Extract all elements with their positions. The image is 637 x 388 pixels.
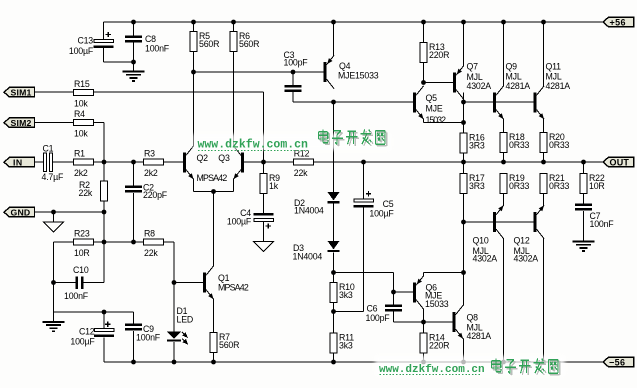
svg-text:Q2: Q2: [197, 153, 209, 163]
wire R16 leads: [463, 123, 465, 134]
transistor Q4 MJE15033: [324, 62, 327, 82]
capacitor C5 100uF: [354, 199, 374, 202]
wire R18 bottom to OUT rail: [503, 153, 505, 163]
svg-text:−56: −56: [609, 357, 625, 367]
wire R2 bottom to R23 node: [103, 212, 105, 242]
wire R6 leads / Q3 collector column: [233, 22, 235, 146]
transistor Q9 MJL4281A: [493, 93, 496, 113]
node junction at 333.5,311.5: [331, 309, 336, 314]
node junction at 543.5,162: [541, 160, 546, 165]
resistor R9 1k: [260, 174, 267, 194]
resistor R3 2k2: [144, 159, 164, 165]
svg-text:www.dzkfw.com.cn: www.dzkfw.com.cn: [198, 138, 309, 151]
wire R22 column: [583, 162, 585, 204]
node junction at 104,212: [102, 210, 107, 215]
node junction at 463.5,222: [461, 220, 466, 225]
wire GND terminal ground stub: [53, 212, 55, 222]
node junction at 133.5,162: [131, 160, 136, 165]
svg-text:100nF: 100nF: [136, 333, 161, 343]
wire R23 C10 left column: [53, 242, 55, 312]
node junction at 543.5,22: [541, 20, 546, 25]
svg-text:100µF: 100µF: [227, 217, 252, 227]
node junction at 293,72: [291, 70, 296, 75]
svg-text:100nF: 100nF: [64, 291, 89, 301]
svg-text:R3: R3: [144, 148, 155, 158]
svg-text:100pF: 100pF: [366, 313, 391, 323]
svg-text:10k: 10k: [74, 98, 88, 108]
wire R5 leads / Q2 collector column: [193, 22, 195, 146]
wire R17 leads and driver column: [463, 162, 465, 305]
wire C3 top lead: [292, 72, 294, 85]
svg-text:MJL: MJL: [546, 71, 562, 81]
wire C10 left lead: [54, 282, 76, 284]
wire GND line: [35, 211, 105, 213]
node junction at 174,282.5: [172, 280, 177, 285]
transistor Q7 MJL4302A: [453, 73, 456, 93]
svg-text:R1: R1: [74, 148, 85, 158]
svg-text:MJE: MJE: [426, 104, 443, 114]
svg-text:www.dzkfw.com.cn: www.dzkfw.com.cn: [379, 364, 485, 376]
resistor R2 22k: [101, 181, 108, 201]
wire R20 bottom to OUT rail: [543, 153, 545, 163]
node junction at 423.5,362: [421, 360, 426, 365]
node junction at 233.5,22: [231, 20, 236, 25]
svg-text:Q8: Q8: [467, 312, 479, 322]
svg-text:C13: C13: [77, 36, 93, 46]
terminal OUT: [603, 157, 634, 167]
diode D2 1N4004: [328, 192, 340, 201]
wire ground stub at x=53.5: [53, 312, 55, 322]
svg-text:4281A: 4281A: [467, 331, 492, 341]
node junction at 193.5,72: [191, 70, 196, 75]
node junction at 503.5,362: [501, 360, 506, 365]
wire Q10 collector to bottom rail: [503, 239, 505, 362]
capacitor C6 100pF: [385, 305, 402, 308]
transistor Q6 MJE15033: [413, 283, 416, 303]
wire Q11 collector to rail: [543, 22, 545, 86]
node junction at 503.5,22: [501, 20, 506, 25]
node junction at 423.5,82.5: [421, 80, 426, 85]
svg-text:MJL: MJL: [506, 71, 522, 81]
svg-text:4302A: 4302A: [467, 81, 492, 91]
svg-text:+56: +56: [610, 17, 626, 27]
wire Q6 base net from diode node: [334, 272, 394, 274]
wire Q1 base: [174, 282, 203, 284]
capacitor C9 100nF: [125, 324, 142, 327]
svg-text:Q5: Q5: [426, 93, 438, 103]
svg-text:C10: C10: [73, 265, 89, 275]
node junction at 53.5,282.5: [51, 280, 56, 285]
watermark bottom chinese text: [493, 360, 560, 375]
svg-text:SIM2: SIM2: [11, 118, 32, 128]
resistor R15 10k: [74, 90, 94, 96]
wire Q12 collector to bottom rail: [543, 239, 545, 362]
svg-text:IN: IN: [13, 157, 23, 167]
svg-text:MPSA42: MPSA42: [197, 173, 228, 183]
wire -56 bottom rail: [104, 361, 603, 363]
transistor Q2 MPSA42: [183, 153, 186, 173]
wire C7 bottom to ground: [583, 211, 585, 241]
resistor R16 3R3: [460, 133, 467, 153]
watermark bottom halo: [375, 356, 565, 375]
wire C6 top lead: [393, 292, 395, 305]
resistor R14 220R: [420, 333, 427, 353]
resistor R4 10k: [74, 120, 94, 126]
node junction at 133.5,62: [131, 60, 136, 65]
ground triangle under C4: [263, 221, 265, 241]
resistor R7 560R: [210, 333, 217, 353]
capacitor C7 100nF: [575, 204, 592, 207]
node junction at 133.5,22: [131, 20, 136, 25]
svg-text:MJE15033: MJE15033: [338, 71, 379, 81]
node junction at 543.5,362: [541, 360, 546, 365]
wire R8 corner down to Q1 base node: [173, 242, 175, 283]
wire Q2 Q3 emitter junction to Q1 collector: [193, 179, 195, 191]
wire R13/Q5 collector node to Q7 base: [424, 82, 454, 84]
svg-text:10k: 10k: [74, 128, 88, 138]
svg-text:220R: 220R: [429, 50, 449, 60]
wire R13 leads: [423, 22, 425, 83]
capacitor C10 100nF: [76, 277, 79, 290]
svg-text:R23: R23: [74, 228, 90, 238]
resistor R5 560R: [190, 32, 197, 52]
wire +56 top rail: [104, 21, 604, 23]
resistor R22 10R: [580, 174, 587, 194]
svg-text:Q10: Q10: [473, 236, 489, 246]
svg-text:15033: 15033: [425, 299, 449, 309]
svg-text:3k3: 3k3: [339, 290, 353, 300]
wire SIM2 to R4 corner: [35, 122, 105, 124]
wire Q6 emitter to driver column: [423, 273, 425, 276]
wire C13 bottom to node: [103, 48, 105, 63]
node junction at 53.5,212: [51, 210, 56, 215]
resistor R23 10R: [74, 239, 94, 245]
wire C3 bottom to Q4 collector node: [292, 92, 294, 102]
svg-text:Q11: Q11: [546, 62, 562, 72]
node junction at 363.5,162: [361, 160, 366, 165]
ground under C8: [123, 71, 145, 73]
wire R9 and C4 column: [263, 162, 265, 213]
resistor R10 3k3: [330, 283, 337, 303]
wire C5 bottom lead to R10 node: [363, 208, 365, 312]
svg-text:0R33: 0R33: [509, 140, 530, 150]
svg-text:R8: R8: [144, 228, 155, 238]
wire ground line y=312: [54, 311, 134, 313]
capacitor C8 100nF: [125, 35, 142, 38]
node junction at 463.5,272.5: [461, 270, 466, 275]
terminal +56: [603, 17, 634, 27]
transistor Q5 MJE15032: [413, 93, 416, 113]
wire Q4 emitter to rail: [333, 22, 335, 55]
svg-text:4302A: 4302A: [473, 253, 498, 263]
svg-text:Q1: Q1: [218, 273, 230, 283]
svg-text:MPSA42: MPSA42: [218, 283, 249, 293]
svg-text:220pF: 220pF: [143, 190, 168, 200]
LED D1: [167, 332, 181, 339]
node junction at 263.5,162: [261, 160, 266, 165]
svg-text:100pF: 100pF: [284, 57, 309, 67]
svg-text:0R33: 0R33: [509, 181, 530, 191]
node junction at 393.5,292: [391, 290, 396, 295]
wire C12 top lead: [103, 312, 105, 329]
svg-text:0R33: 0R33: [549, 181, 570, 191]
svg-text:GND: GND: [11, 207, 31, 217]
svg-text:1N4004: 1N4004: [294, 206, 324, 216]
wire C13 top lead: [103, 22, 105, 40]
node junction at 333.5,22: [331, 20, 336, 25]
svg-text:C12: C12: [79, 326, 95, 336]
wire C5 top lead: [363, 162, 365, 199]
svg-text:3R3: 3R3: [469, 140, 485, 150]
node junction at 213.5,191.5: [211, 189, 216, 194]
terminal SIM2: [4, 118, 35, 128]
capacitor C3 100pF: [285, 85, 302, 88]
svg-text:100µF: 100µF: [70, 337, 95, 347]
svg-text:1k: 1k: [269, 181, 279, 191]
resistor R17 3R3: [460, 174, 467, 194]
node junction at 463.5,22: [461, 20, 466, 25]
svg-text:4281A: 4281A: [546, 81, 571, 91]
watermark middle halo: [193, 134, 391, 150]
svg-text:R4: R4: [74, 109, 85, 119]
wire R23 R8 line y=242: [54, 241, 175, 243]
capacitor C1 4.7uF: [43, 153, 46, 172]
wire R2 column: [103, 162, 105, 212]
svg-text:4302A: 4302A: [514, 253, 539, 263]
resistor R13 220R: [420, 43, 427, 63]
svg-text:10R: 10R: [74, 248, 90, 258]
ground under C7: [573, 241, 595, 243]
svg-text:1N4004: 1N4004: [293, 252, 323, 262]
svg-text:OUT: OUT: [610, 157, 630, 167]
svg-text:22k: 22k: [79, 188, 93, 198]
svg-text:100µF: 100µF: [69, 46, 94, 56]
node junction at 133.5,362: [131, 360, 136, 365]
wire R19 bottom to Q10 emitter: [503, 194, 505, 206]
resistor R20 0R33: [540, 133, 547, 153]
capacitor C13 100uF: [94, 40, 114, 43]
svg-text:10R: 10R: [589, 181, 605, 191]
node junction at 104,312: [102, 310, 107, 315]
svg-text:100µF: 100µF: [369, 208, 394, 218]
wire Q7 collector / Q9 Q11 base net: [463, 93, 465, 123]
svg-text:4.7µF: 4.7µF: [42, 172, 64, 182]
svg-text:15032: 15032: [426, 115, 447, 125]
ground triangle at GND terminal: [44, 222, 64, 232]
transistor Q1 MPSA42: [203, 273, 206, 293]
node junction at 463.5,162: [461, 160, 466, 165]
transistor Q3 MPSA42: [241, 153, 244, 173]
wire Q4 collector node to Q5 base y=102: [334, 101, 414, 103]
svg-text:560R: 560R: [199, 39, 219, 49]
wire Q1 emitter to R7 to rail: [213, 299, 215, 362]
node junction at 104,242: [102, 240, 107, 245]
svg-text:4281A: 4281A: [506, 81, 531, 91]
svg-text:SIM1: SIM1: [11, 87, 32, 97]
node junction at 583.5,162: [581, 160, 586, 165]
wire IN line C1 to Q2 base: [53, 161, 183, 163]
node junction at 104,162: [102, 160, 107, 165]
resistor R18 0R33: [500, 133, 507, 153]
terminal IN: [4, 157, 35, 167]
resistor R19 0R33: [500, 174, 507, 194]
wire C9 leads: [133, 312, 135, 324]
svg-text:Q3: Q3: [218, 153, 230, 163]
svg-text:C8: C8: [145, 34, 156, 44]
wire Q7 emitter to rail: [463, 22, 465, 66]
svg-text:100nF: 100nF: [590, 219, 615, 229]
wire Q5 emitter to R16 node: [423, 119, 425, 122]
svg-text:560R: 560R: [239, 39, 259, 49]
wire R14 leads: [423, 322, 425, 362]
wire Q10 Q12 base net y=222: [464, 221, 534, 223]
capacitor C12 100uF: [94, 329, 114, 332]
svg-text:Q4: Q4: [339, 61, 351, 71]
terminal GND: [4, 207, 35, 217]
wire IN line left: [35, 161, 44, 163]
svg-text:2k2: 2k2: [144, 168, 158, 178]
node junction at 333.5,272.5: [331, 270, 336, 275]
ground at bottom left: [43, 321, 65, 323]
node junction at 503.5,162: [501, 160, 506, 165]
node junction at 174,362: [172, 360, 177, 365]
transistor Q8 MJL4281A: [453, 312, 456, 332]
svg-text:22k: 22k: [144, 248, 158, 258]
wire SIM1 to Q3 base: [35, 91, 264, 93]
resistor R1 2k2: [74, 159, 94, 165]
wire C2 leads: [133, 162, 135, 186]
capacitor C2 220pF: [125, 186, 142, 189]
terminal SIM1: [4, 87, 35, 97]
transistor Q12 MJL4302A: [534, 212, 537, 232]
wire C6 bottom to bias node: [393, 312, 395, 323]
svg-text:3R3: 3R3: [469, 181, 485, 191]
wire Q9 emitter to R18: [503, 119, 505, 132]
node junction at 423.5,322: [421, 320, 426, 325]
node junction at 333.5,362: [331, 360, 336, 365]
svg-text:3k3: 3k3: [339, 340, 353, 350]
transistor Q11 MJL4281A: [534, 93, 537, 113]
wire OUT rail: [244, 161, 603, 163]
wire C10 right lead to R2 column corner: [84, 282, 105, 284]
wire D1 leads: [173, 283, 175, 332]
wire C8 leads: [133, 22, 135, 35]
resistor R6 560R: [230, 32, 237, 52]
svg-text:Q7: Q7: [467, 61, 479, 71]
wire C12 bottom to bottom rail: [103, 337, 105, 362]
watermark middle chinese text: [320, 131, 387, 146]
node junction at 213.5,362: [211, 360, 216, 365]
diode D3 1N4004: [328, 241, 340, 250]
wire R21 bottom to Q12 emitter: [543, 194, 545, 206]
svg-text:100nF: 100nF: [145, 44, 170, 54]
node junction at 423.5,22: [421, 20, 426, 25]
node junction at 333.5,102: [331, 100, 336, 105]
node junction at 463.5,102: [461, 100, 466, 105]
transistor Q10 MJL4302A: [493, 212, 496, 232]
svg-text:2k2: 2k2: [74, 168, 88, 178]
wire Q11 emitter to R20: [543, 119, 545, 132]
resistor R8 22k: [144, 239, 164, 245]
wire R10 R11 column: [333, 273, 335, 363]
svg-text:22k: 22k: [294, 168, 308, 178]
wire D2 D3 diode chain column: [333, 102, 335, 192]
svg-text:560R: 560R: [219, 340, 239, 350]
svg-text:R15: R15: [74, 79, 90, 89]
wire Q9 collector to rail: [503, 22, 505, 86]
svg-text:LED: LED: [177, 314, 194, 324]
svg-text:C1: C1: [43, 144, 54, 154]
resistor R11 3k3: [330, 333, 337, 353]
capacitor C4 100uF: [254, 213, 274, 216]
svg-text:0R33: 0R33: [549, 140, 570, 150]
svg-text:Q9: Q9: [506, 62, 518, 72]
terminal -56: [603, 357, 634, 367]
node junction at 463.5,362: [461, 360, 466, 365]
resistor R12 22k: [293, 159, 313, 165]
wire Q4 base net y=72: [194, 71, 324, 73]
node junction at 193.5,22: [191, 20, 196, 25]
wire Q8 emitter to bottom rail: [463, 339, 465, 362]
svg-text:Q12: Q12: [514, 236, 530, 246]
wire Q6 collector to R14 node: [423, 309, 425, 322]
node junction at 463.5,122.5: [461, 120, 466, 125]
resistor R21 0R33: [540, 174, 547, 194]
svg-text:220R: 220R: [429, 340, 449, 350]
node junction at 133.5,242: [131, 240, 136, 245]
